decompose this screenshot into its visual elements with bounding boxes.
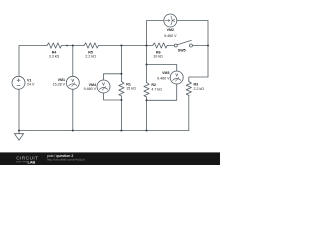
footer band [0,152,220,165]
wire rail R2 branch lower [146,97,148,131]
ground stub [18,131,20,134]
wire R5 to node at rail [99,45,147,47]
resistor R5 [84,43,99,48]
svg-text:V: V [102,82,105,87]
svg-text:V: V [171,19,176,22]
wire R6 to switch [167,45,174,47]
wire R4 to R5 [62,45,85,47]
voltage source V1 [12,76,25,89]
wire VM1 branch lower [72,89,74,130]
voltmeter VM2 needle glyph rotated [165,16,172,25]
svg-text:LAB: LAB [28,161,36,165]
junction dots [18,44,209,131]
svg-text:2.2 kΩ: 2.2 kΩ [85,54,96,58]
wire top box left rail [147,21,165,46]
svg-text:15 kΩ: 15 kΩ [126,87,136,91]
voltmeter VM1 needle glyph [69,83,77,87]
ground symbol [14,134,23,141]
wire right rail corner to R3 [189,77,208,82]
wire bottom rail [19,130,189,132]
resistor R1 [119,82,124,97]
svg-text:9.460 V: 9.460 V [164,34,177,38]
svg-text:VM2: VM2 [167,28,174,32]
svg-text:http://circuitlab.com/c4rc5y1r: http://circuitlab.com/c4rc5y1r [47,158,85,162]
wire R1 branch upper [120,46,122,82]
wire R1 branch lower [120,96,122,131]
svg-text:VM3: VM3 [162,71,169,75]
svg-text:3.3 kΩ: 3.3 kΩ [49,54,60,58]
svg-text:9.460 V: 9.460 V [157,76,170,80]
wire VM3 loop bottom [147,84,177,100]
voltage source V1 symbol plus-minus [17,78,21,85]
resistor R2 [144,83,149,98]
svg-text:SW5: SW5 [178,48,186,52]
wire top box right side [177,21,208,78]
svg-text:4.7 kΩ: 4.7 kΩ [151,87,162,91]
wire top-left corner V1 to R4 [19,46,47,76]
resistor R6 [153,43,168,48]
wire VM4 loop bottom [104,93,122,100]
voltmeter VM3 [170,71,183,84]
voltmeter VM3 needle glyph [173,77,181,81]
wire V1 to bottom rail [18,89,20,130]
svg-text:15.28 V: 15.28 V [53,83,66,87]
wire R3 to bottom rail [188,95,190,130]
svg-text:2.2 kΩ: 2.2 kΩ [194,87,205,91]
wire VM3 loop top [147,65,177,72]
labels [27,28,204,91]
wire rail to R6 [147,45,153,47]
footer logo dashes [16,161,27,163]
svg-text:V: V [175,73,178,78]
wire rail R2 branch upper [146,46,148,83]
wire VM1 branch upper [72,46,74,77]
switch SW5 lever [177,40,191,44]
svg-text:24 V: 24 V [27,83,35,87]
switch SW5 terminals [174,44,192,47]
svg-text:9.460 V: 9.460 V [84,87,97,91]
resistor R4 [47,43,62,48]
wire switch to right rail [192,45,208,47]
svg-text:10 kΩ: 10 kΩ [153,54,163,58]
voltmeter VM4 needle glyph [99,86,107,90]
wire VM4 loop top [104,74,122,80]
resistor R3 [186,82,191,96]
voltmeter VM4 [97,80,110,93]
voltmeter VM2 [164,14,177,27]
voltmeter VM1 [66,76,79,89]
svg-text:V: V [71,78,74,83]
